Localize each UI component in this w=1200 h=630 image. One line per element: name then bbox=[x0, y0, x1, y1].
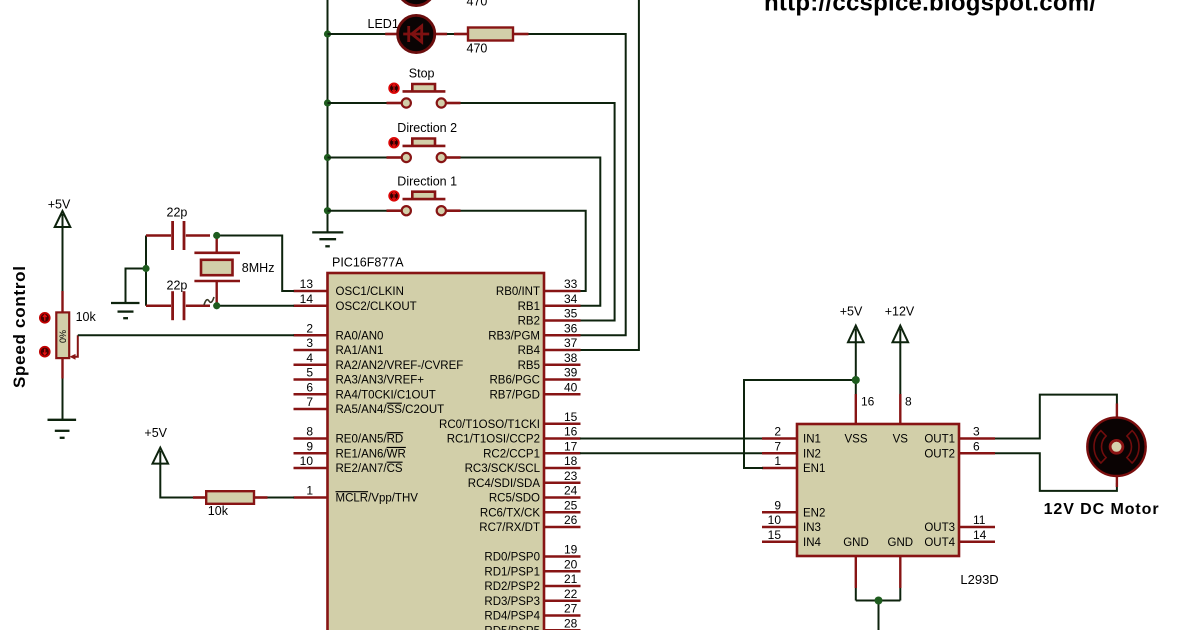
U1 pin 19 RD0/PSP0 bbox=[484, 543, 580, 564]
svg-text:GND: GND bbox=[843, 537, 869, 549]
svg-text:20: 20 bbox=[564, 557, 578, 571]
push button Direction 1 bbox=[387, 174, 461, 215]
svg-text:RB6/PGC: RB6/PGC bbox=[490, 375, 541, 387]
wire button Direction 2 to PIC bbox=[461, 158, 601, 306]
svg-text:RA4/T0CKI/C1OUT: RA4/T0CKI/C1OUT bbox=[336, 389, 436, 401]
wire rail to button Direction 2 bbox=[328, 157, 387, 159]
U1 pin 2 RA0/AN0 bbox=[294, 321, 384, 342]
svg-text:RB2: RB2 bbox=[518, 316, 540, 328]
U1 pin 33 RB0/INT bbox=[496, 277, 581, 298]
junction cap rail node bbox=[142, 265, 149, 272]
svg-text:0%: 0% bbox=[58, 330, 68, 343]
svg-text:EN1: EN1 bbox=[803, 463, 825, 475]
svg-text:25: 25 bbox=[564, 498, 578, 512]
svg-text:+5V: +5V bbox=[144, 426, 167, 440]
svg-text:16: 16 bbox=[564, 425, 578, 439]
U1 pin 1 MCLR/Vpp/THV bbox=[294, 484, 419, 505]
svg-text:RD1/PSP1: RD1/PSP1 bbox=[484, 566, 540, 578]
svg-text:PIC16F877A: PIC16F877A bbox=[332, 256, 404, 270]
svg-text:RE1/AN6/WR: RE1/AN6/WR bbox=[336, 448, 406, 460]
overline CS on pin 10 bbox=[387, 461, 403, 463]
U1 pin 34 RB1 bbox=[518, 292, 581, 313]
U2 GND pin stubs to ground rail bbox=[856, 555, 901, 630]
crystal X1 8MHz bbox=[194, 236, 274, 306]
svg-text:2: 2 bbox=[774, 425, 781, 439]
U1 pin 23 RC4/SDI/SDA bbox=[468, 469, 581, 490]
button indicator circle bbox=[389, 191, 399, 201]
svg-text:4: 4 bbox=[306, 351, 313, 365]
svg-text:RE2/AN7/CS: RE2/AN7/CS bbox=[336, 463, 403, 475]
power +5V P2 (MCLR) bbox=[144, 426, 168, 464]
overline WR on pin 9 bbox=[387, 446, 406, 448]
button cap bbox=[412, 192, 435, 199]
U2 pin 16 VSS stub bbox=[856, 342, 875, 425]
svg-text:15: 15 bbox=[768, 528, 782, 542]
button indicator circle bbox=[389, 83, 399, 93]
svg-text:RB7/PGD: RB7/PGD bbox=[490, 389, 541, 401]
U1 pin 3 RA1/AN1 bbox=[294, 336, 384, 357]
svg-text:23: 23 bbox=[564, 469, 578, 483]
svg-text:22p: 22p bbox=[167, 206, 188, 220]
svg-text:GND: GND bbox=[888, 537, 914, 549]
svg-text:37: 37 bbox=[564, 336, 578, 350]
squiggle artifact near pin 14 node bbox=[204, 297, 214, 305]
svg-text:8: 8 bbox=[905, 395, 912, 409]
svg-text:6: 6 bbox=[973, 439, 980, 453]
pot RV1 10k bbox=[40, 291, 97, 379]
svg-text:OUT1: OUT1 bbox=[924, 434, 955, 446]
svg-text:OUT2: OUT2 bbox=[924, 448, 955, 460]
U2 pin 8 VS stub bbox=[900, 342, 912, 425]
button cap bbox=[412, 84, 435, 91]
motor M1 12V DC Motor bbox=[1087, 418, 1145, 476]
svg-text:OUT3: OUT3 bbox=[924, 522, 955, 534]
U1 pin 17 RC2/CCP1 bbox=[483, 439, 580, 460]
wire rail to button Stop bbox=[328, 102, 387, 104]
ground G2 (crystal) bbox=[111, 303, 140, 318]
ground G3 (pot) bbox=[48, 420, 77, 438]
U1 pin 38 RB5 bbox=[518, 351, 581, 372]
svg-text:7: 7 bbox=[774, 439, 781, 453]
svg-text:39: 39 bbox=[564, 366, 578, 380]
svg-text:22: 22 bbox=[564, 587, 578, 601]
button terminal stubs bbox=[387, 209, 402, 212]
LED D1 LED1 bbox=[385, 15, 447, 52]
svg-text:RD0/PSP0: RD0/PSP0 bbox=[484, 552, 540, 564]
svg-text:8MHz: 8MHz bbox=[242, 261, 275, 275]
svg-text:1: 1 bbox=[306, 484, 313, 498]
wire cap rail to ground bbox=[126, 269, 147, 304]
svg-text:2: 2 bbox=[306, 321, 313, 335]
U1 pin 26 RC7/RX/DT bbox=[479, 513, 580, 534]
svg-text:35: 35 bbox=[564, 307, 578, 321]
U2 pin 6 OUT2 bbox=[924, 439, 995, 460]
power +5V P3 (VSS) bbox=[840, 305, 864, 343]
push button Stop bbox=[387, 67, 461, 108]
wire +5V to R3 bbox=[160, 464, 193, 498]
wire LED1 to R2 bbox=[447, 33, 454, 35]
svg-text:26: 26 bbox=[564, 513, 578, 527]
wire top cap row to pin 13 bbox=[217, 236, 294, 292]
svg-text:RA0/AN0: RA0/AN0 bbox=[336, 330, 384, 342]
svg-text:EN2: EN2 bbox=[803, 507, 825, 519]
pot down button bbox=[40, 347, 50, 357]
wire R3 to MCLR pin 1 bbox=[268, 497, 295, 499]
pot up button bbox=[40, 313, 50, 323]
svg-text:14: 14 bbox=[300, 292, 314, 306]
svg-text:IN2: IN2 bbox=[803, 448, 821, 460]
U1 pin 39 RB6/PGC bbox=[490, 366, 581, 387]
svg-text:+5V: +5V bbox=[840, 305, 863, 319]
svg-text:L293D: L293D bbox=[960, 572, 998, 587]
svg-text:36: 36 bbox=[564, 321, 578, 335]
U1 pin 16 RC1/T1OSI/CCP2 bbox=[447, 425, 581, 446]
svg-text:7: 7 bbox=[306, 395, 313, 409]
svg-text:10k: 10k bbox=[208, 504, 229, 518]
svg-text:RC0/T1OSO/T1CKI: RC0/T1OSO/T1CKI bbox=[439, 419, 540, 431]
U1 pin 13 OSC1/CLKIN bbox=[294, 277, 404, 298]
U1 pin 4 RA2/AN2/VREF-/CVREF bbox=[294, 351, 464, 372]
overline SS on pin 7 bbox=[387, 402, 402, 404]
wire from R1 to RB4 pin 37 bbox=[529, 0, 639, 350]
svg-text:28: 28 bbox=[564, 616, 578, 630]
svg-text:8: 8 bbox=[306, 425, 313, 439]
wire +5V to pot bbox=[62, 227, 64, 291]
svg-text:9: 9 bbox=[774, 498, 781, 512]
resistor R1 470 (top, clipped) bbox=[454, 0, 529, 8]
wire OUT1 to motor top bbox=[995, 395, 1117, 439]
LED D2 (top, clipped) bbox=[385, 0, 447, 6]
wire EN1 to +5V rail bbox=[744, 380, 856, 468]
junction C2 node bbox=[213, 302, 220, 309]
push button Direction 2 bbox=[387, 121, 461, 162]
svg-text:Stop: Stop bbox=[409, 67, 435, 81]
svg-text:16: 16 bbox=[861, 395, 875, 409]
ground G1 (button rail) bbox=[312, 232, 343, 246]
svg-text:RB4: RB4 bbox=[518, 345, 541, 357]
junction on rail y=103 bbox=[324, 99, 331, 106]
button terminal circles bbox=[402, 98, 411, 107]
svg-text:LED1: LED1 bbox=[368, 17, 399, 31]
svg-text:RC4/SDI/SDA: RC4/SDI/SDA bbox=[468, 478, 541, 490]
svg-text:34: 34 bbox=[564, 292, 578, 306]
overline RD on pin 8 bbox=[387, 432, 404, 434]
svg-text:15: 15 bbox=[564, 410, 578, 424]
motor top lead bbox=[1116, 404, 1118, 420]
wire left button rail bbox=[327, 0, 329, 232]
svg-text:RC2/CCP1: RC2/CCP1 bbox=[483, 448, 540, 460]
svg-text:10k: 10k bbox=[76, 310, 97, 324]
svg-text:33: 33 bbox=[564, 277, 578, 291]
svg-text:Direction 1: Direction 1 bbox=[397, 174, 457, 188]
svg-text:RA2/AN2/VREF-/CVREF: RA2/AN2/VREF-/CVREF bbox=[336, 360, 464, 372]
U1 pin 40 RB7/PGD bbox=[490, 380, 581, 401]
svg-text:18: 18 bbox=[564, 454, 578, 468]
svg-text:RD4/PSP4: RD4/PSP4 bbox=[484, 611, 540, 623]
svg-text:21: 21 bbox=[564, 572, 578, 586]
U2 pin 2 IN1 bbox=[762, 425, 821, 446]
svg-text:27: 27 bbox=[564, 602, 578, 616]
svg-text:OSC1/CLKIN: OSC1/CLKIN bbox=[336, 286, 404, 298]
junction GND rail bbox=[875, 597, 883, 605]
U2 pin 11 OUT3 bbox=[924, 513, 995, 534]
wire rail to button Direction 1 bbox=[328, 210, 387, 212]
svg-text:VS: VS bbox=[893, 434, 909, 446]
button terminal circles bbox=[402, 206, 411, 215]
U1 pin 21 RD2/PSP2 bbox=[484, 572, 580, 593]
U1 pin 36 RB3/PGM bbox=[488, 321, 580, 342]
svg-text:RD3/PSP3: RD3/PSP3 bbox=[484, 596, 540, 608]
wire from R2 to RB3 pin 36 bbox=[529, 34, 626, 335]
svg-text:470: 470 bbox=[467, 0, 488, 8]
resistor R2 470 bbox=[454, 28, 529, 56]
U1 pin 8 RE0/AN5/RD bbox=[294, 425, 404, 446]
U2 pin 1 EN1 bbox=[762, 454, 825, 475]
svg-text:RC7/RX/DT: RC7/RX/DT bbox=[479, 522, 540, 534]
svg-text:RC6/TX/CK: RC6/TX/CK bbox=[480, 507, 540, 519]
svg-text:RD2/PSP2: RD2/PSP2 bbox=[484, 581, 540, 593]
U1 pin 22 RD3/PSP3 bbox=[484, 587, 580, 608]
svg-text:24: 24 bbox=[564, 484, 578, 498]
svg-text:12V DC Motor: 12V DC Motor bbox=[1044, 501, 1159, 518]
U1 pin 10 RE2/AN7/CS bbox=[294, 454, 403, 475]
svg-text:IN4: IN4 bbox=[803, 537, 822, 549]
svg-text:14: 14 bbox=[973, 528, 987, 542]
svg-text:MCLR/Vpp/THV: MCLR/Vpp/THV bbox=[336, 493, 419, 505]
junction on rail y=210.7 bbox=[324, 207, 331, 214]
power +5V P1 (pot) bbox=[48, 198, 71, 227]
svg-text:5: 5 bbox=[306, 366, 313, 380]
U1 pin 15 RC0/T1OSO/T1CKI bbox=[439, 410, 580, 431]
button cap bbox=[412, 139, 435, 146]
U1 pin 24 RC5/SDO bbox=[489, 484, 581, 505]
svg-text:RA5/AN4/SS/C2OUT: RA5/AN4/SS/C2OUT bbox=[336, 404, 445, 416]
svg-text:6: 6 bbox=[306, 380, 313, 394]
svg-text:40: 40 bbox=[564, 380, 578, 394]
svg-text:19: 19 bbox=[564, 543, 578, 557]
svg-text:Direction 2: Direction 2 bbox=[397, 121, 457, 135]
svg-text:RB3/PGM: RB3/PGM bbox=[488, 330, 540, 342]
U2 pin 15 IN4 bbox=[762, 528, 822, 549]
U1 pin 9 RE1/AN6/WR bbox=[294, 439, 406, 460]
wire pot wiper to RA0 pin 2 bbox=[78, 334, 294, 336]
svg-text:IN1: IN1 bbox=[803, 434, 821, 446]
motor bottom lead bbox=[1116, 474, 1118, 487]
wire rail to LED1 bbox=[328, 33, 386, 35]
svg-text:RE0/AN5/RD: RE0/AN5/RD bbox=[336, 434, 404, 446]
pot wiper arrow bbox=[72, 335, 78, 357]
junction on rail y=34 bbox=[324, 30, 331, 37]
svg-text:RA1/AN1: RA1/AN1 bbox=[336, 345, 384, 357]
wire pot bottom to ground bbox=[62, 379, 64, 420]
svg-text:13: 13 bbox=[300, 277, 314, 291]
svg-text:RC5/SDO: RC5/SDO bbox=[489, 493, 540, 505]
IC U2 L293D body bbox=[797, 424, 959, 556]
svg-text:9: 9 bbox=[306, 439, 313, 453]
svg-text:RB5: RB5 bbox=[518, 360, 540, 372]
svg-text:11: 11 bbox=[973, 513, 986, 527]
svg-text:RB0/INT: RB0/INT bbox=[496, 286, 540, 298]
U1 pin 5 RA3/AN3/VREF+ bbox=[294, 366, 425, 387]
wire bottom cap row to pin 14 bbox=[217, 305, 294, 307]
U2 pin 14 OUT4 bbox=[924, 528, 995, 549]
button terminal stubs bbox=[387, 102, 402, 105]
wire button Stop to PIC bbox=[461, 103, 615, 321]
junction on rail y=157.5 bbox=[324, 154, 331, 161]
svg-text:IN3: IN3 bbox=[803, 522, 821, 534]
svg-text:+12V: +12V bbox=[885, 305, 915, 319]
U2 pin 3 OUT1 bbox=[924, 425, 995, 446]
U1 pin 6 RA4/T0CKI/C1OUT bbox=[294, 380, 436, 401]
U1 pin 27 RD4/PSP4 bbox=[484, 602, 580, 623]
button terminal circles bbox=[402, 153, 411, 162]
svg-text:3: 3 bbox=[306, 336, 313, 350]
wire RC2/CCP1 pin17 to IN2 bbox=[580, 452, 763, 454]
wire OUT2 to motor bottom bbox=[995, 453, 1117, 491]
U2 pin 9 EN2 bbox=[762, 498, 825, 519]
wire RC1/CCP2 pin16 to IN1 bbox=[580, 438, 763, 440]
svg-text:38: 38 bbox=[564, 351, 578, 365]
svg-text:10: 10 bbox=[768, 513, 782, 527]
svg-text:10: 10 bbox=[300, 454, 314, 468]
svg-text:RD5/PSP5: RD5/PSP5 bbox=[484, 625, 540, 630]
U1 pin 7 RA5/AN4/SS/C2OUT bbox=[294, 395, 445, 416]
svg-text:1: 1 bbox=[774, 454, 781, 468]
U1 pin 25 RC6/TX/CK bbox=[480, 498, 581, 519]
svg-text:470: 470 bbox=[467, 42, 488, 56]
junction C1 node bbox=[213, 232, 220, 239]
button terminal stubs bbox=[387, 156, 402, 159]
U1 pin 14 OSC2/CLKOUT bbox=[294, 292, 417, 313]
button indicator circle bbox=[389, 138, 399, 148]
U1 pin 20 RD1/PSP1 bbox=[484, 557, 580, 578]
svg-text:OUT4: OUT4 bbox=[924, 537, 955, 549]
overline MCLR on pin 1 bbox=[336, 491, 369, 493]
capacitor C2 22p bbox=[146, 279, 210, 321]
power +12V P4 (VS) bbox=[885, 305, 915, 343]
capacitor C1 22p bbox=[146, 206, 210, 251]
svg-text:+5V: +5V bbox=[48, 198, 71, 212]
svg-text:RC3/SCK/SCL: RC3/SCK/SCL bbox=[465, 463, 541, 475]
U2 pin 10 IN3 bbox=[762, 513, 821, 534]
svg-text:OSC2/CLKOUT: OSC2/CLKOUT bbox=[336, 301, 417, 313]
svg-text:Speed control: Speed control bbox=[10, 266, 29, 388]
svg-text:RA3/AN3/VREF+: RA3/AN3/VREF+ bbox=[336, 375, 425, 387]
U2 pin 7 IN2 bbox=[762, 439, 821, 460]
svg-text:VSS: VSS bbox=[844, 434, 867, 446]
svg-text:17: 17 bbox=[564, 439, 578, 453]
U1 pin 28 RD5/PSP5 bbox=[484, 616, 580, 630]
U1 pin 37 RB4 bbox=[518, 336, 581, 357]
wire button Direction 1 to PIC bbox=[461, 211, 586, 291]
svg-text:RB1: RB1 bbox=[518, 301, 540, 313]
svg-text:http://ccspice.blogspot.com/: http://ccspice.blogspot.com/ bbox=[764, 0, 1096, 17]
U1 pin 35 RB2 bbox=[518, 307, 581, 328]
resistor R3 10k bbox=[193, 491, 268, 518]
wire left cap rail vertical bbox=[145, 236, 147, 306]
svg-text:22p: 22p bbox=[167, 279, 188, 293]
junction VSS/EN1 bbox=[852, 376, 860, 384]
svg-text:RC1/T1OSI/CCP2: RC1/T1OSI/CCP2 bbox=[447, 434, 540, 446]
U1 pin 18 RC3/SCK/SCL bbox=[465, 454, 581, 475]
svg-text:3: 3 bbox=[973, 425, 980, 439]
IC U1 PIC16F877A body bbox=[328, 273, 545, 630]
